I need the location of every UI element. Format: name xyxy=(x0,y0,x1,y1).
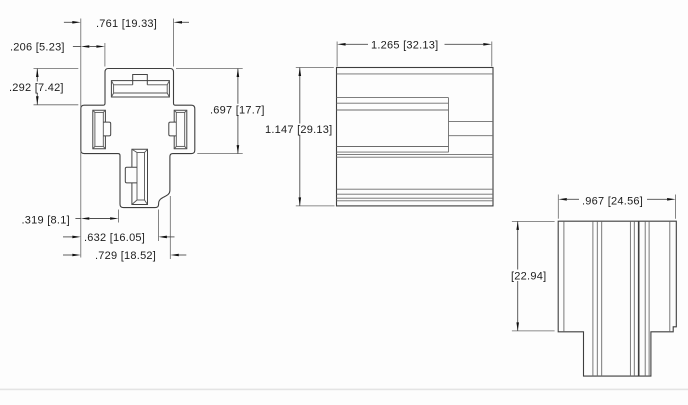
bottom slot key tab xyxy=(125,167,137,183)
svg-text:1.147 [29.13]: 1.147 [29.13] xyxy=(265,124,332,136)
extension line x=158.4 (.632) xyxy=(157,210,159,242)
dimension 1.147 ext lines xyxy=(296,67,334,69)
svg-text:.632 [16.05]: .632 [16.05] xyxy=(84,232,145,244)
right slot chamfer diagonals xyxy=(174,110,187,149)
dimension .206 line + arrows xyxy=(73,46,81,48)
extension line x=104.9 (.206) xyxy=(104,43,106,67)
svg-text:.206 [5.23]: .206 [5.23] xyxy=(10,41,65,53)
svg-text:.319 [8.1]: .319 [8.1] xyxy=(22,214,70,226)
dimension .292 line + arrows xyxy=(36,69,38,105)
extension line x=80.8 (body left edge, shared) xyxy=(80,19,82,258)
vertical edge of recess xyxy=(448,98,450,153)
dimension .292 text xyxy=(8,82,66,94)
dimension 1.147 line + arrows xyxy=(299,68,301,206)
dimension 22.94 ext lines xyxy=(512,220,555,222)
left slot inner xyxy=(95,112,103,146)
dimension .697 text xyxy=(209,104,267,116)
left slot key tab xyxy=(103,122,110,136)
right slot inner xyxy=(176,112,184,146)
top slot key bump xyxy=(133,75,148,85)
svg-text:.967 [24.56]: .967 [24.56] xyxy=(582,195,643,207)
dimension .292 ext lines xyxy=(34,68,79,70)
extension line x=173.5 (.761) xyxy=(173,19,175,67)
dimension 22.94 line + arrows xyxy=(517,221,519,331)
bottom slot inner xyxy=(137,153,145,201)
dimension .697 line + arrows xyxy=(237,69,239,154)
left slot chamfer diagonals xyxy=(93,110,106,149)
faint page divider xyxy=(0,389,688,391)
dimension 1.147 text xyxy=(264,124,334,136)
dimension .729 line + arrows xyxy=(63,254,72,256)
dimension .632 line + arrows xyxy=(63,236,72,238)
partial-width lines xyxy=(337,97,449,99)
right latch lines xyxy=(449,121,494,123)
right slot outer (left wall interrupted by key channel) xyxy=(174,110,187,149)
svg-text:[22.94]: [22.94] xyxy=(511,270,546,282)
body outline xyxy=(337,68,494,206)
dimension .319 line + arrows xyxy=(75,218,80,220)
full-width lines xyxy=(337,73,494,75)
svg-text:.729 [18.52]: .729 [18.52] xyxy=(95,250,156,262)
inner vertical lines (full height) xyxy=(592,221,594,376)
top slot inner (top edge interrupted by key bump) xyxy=(114,85,168,93)
dimension .697 ext lines xyxy=(176,68,243,70)
right slot key tab xyxy=(169,122,177,136)
body outline xyxy=(558,221,676,376)
dimension .967 ext lines xyxy=(557,195,559,219)
svg-text:.697 [17.7]: .697 [17.7] xyxy=(210,104,265,116)
housing outline xyxy=(81,69,195,208)
dimension .967 line + arrows xyxy=(558,198,567,201)
svg-text:.292 [7.42]: .292 [7.42] xyxy=(9,82,64,94)
inner vertical lines (wide section) xyxy=(563,221,565,332)
extension line x=118.6 (.319) xyxy=(118,210,120,223)
bottom slot outer (left wall interrupted by key channel) xyxy=(132,149,148,204)
top slot chamfer diagonals xyxy=(111,81,169,97)
dimension 1.265 line + arrows xyxy=(337,43,346,46)
top slot outer xyxy=(111,81,169,97)
svg-text:1.265 [32.13]: 1.265 [32.13] xyxy=(371,39,438,51)
left slot outer (right wall interrupted by key channel) xyxy=(93,110,106,149)
dimension 22.94 text xyxy=(507,270,549,282)
bottom slot chamfer diagonals xyxy=(132,149,148,204)
dimension 1.265 ext lines xyxy=(336,42,338,67)
extension line x=170.3 (.729) xyxy=(169,196,171,259)
svg-text:.761 [19.33]: .761 [19.33] xyxy=(96,18,157,30)
dimension .761 line + arrows xyxy=(64,21,73,23)
